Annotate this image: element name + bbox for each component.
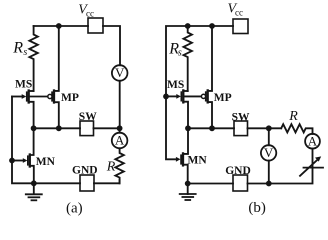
- svg-text:(a): (a): [66, 200, 83, 216]
- svg-text:GND: GND: [225, 165, 251, 177]
- svg-text:SW: SW: [79, 111, 97, 123]
- svg-text:GND: GND: [72, 164, 98, 176]
- svg-text:R: R: [12, 40, 23, 57]
- svg-text:cc: cc: [86, 9, 94, 19]
- svg-text:R: R: [288, 109, 298, 124]
- svg-text:MP: MP: [214, 92, 232, 104]
- svg-text:(b): (b): [248, 200, 266, 216]
- svg-text:V: V: [264, 145, 274, 160]
- svg-text:s: s: [178, 48, 182, 59]
- svg-text:R: R: [106, 160, 116, 175]
- svg-text:MN: MN: [36, 156, 56, 168]
- svg-text:V: V: [115, 65, 125, 80]
- svg-text:s: s: [23, 47, 27, 58]
- svg-text:MS: MS: [167, 79, 184, 91]
- svg-text:A: A: [115, 133, 125, 148]
- svg-text:A: A: [308, 133, 318, 148]
- svg-text:SW: SW: [232, 111, 250, 123]
- svg-text:MS: MS: [15, 79, 32, 91]
- svg-text:MP: MP: [61, 92, 79, 104]
- svg-text:MN: MN: [188, 155, 208, 167]
- svg-text:cc: cc: [235, 8, 243, 18]
